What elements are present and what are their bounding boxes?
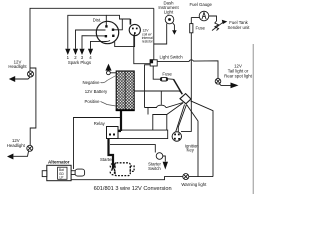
svg-text:Rear spot light: Rear spot light — [224, 73, 253, 78]
svg-text:Starter: Starter — [100, 157, 113, 162]
svg-text:resistor: resistor — [142, 40, 154, 44]
svg-text:Switch: Switch — [148, 166, 161, 171]
svg-text:Sender unit: Sender unit — [228, 25, 251, 30]
svg-text:Headlight: Headlight — [7, 143, 26, 148]
svg-text:Dist.: Dist. — [93, 18, 102, 23]
svg-text:Fuse: Fuse — [162, 72, 172, 77]
svg-text:12V Battery: 12V Battery — [85, 89, 108, 94]
svg-text:601/801 3 wire 12V Conversion: 601/801 3 wire 12V Conversion — [94, 186, 172, 192]
svg-text:Relay: Relay — [94, 121, 106, 126]
svg-text:Fuse: Fuse — [196, 26, 206, 31]
svg-text:Negative: Negative — [83, 80, 101, 85]
svg-text:LP: LP — [60, 176, 64, 180]
svg-text:Light: Light — [164, 10, 174, 15]
svg-text:Positive: Positive — [84, 99, 100, 104]
svg-text:Key: Key — [187, 148, 195, 153]
svg-text:Fuel Gauge: Fuel Gauge — [189, 2, 212, 7]
svg-text:Light Switch: Light Switch — [160, 55, 184, 60]
svg-text:Alternator: Alternator — [48, 159, 70, 164]
svg-text:Headlight: Headlight — [8, 64, 27, 69]
svg-text:Spark Plugs: Spark Plugs — [68, 60, 91, 65]
svg-text:Warning light: Warning light — [181, 182, 207, 187]
